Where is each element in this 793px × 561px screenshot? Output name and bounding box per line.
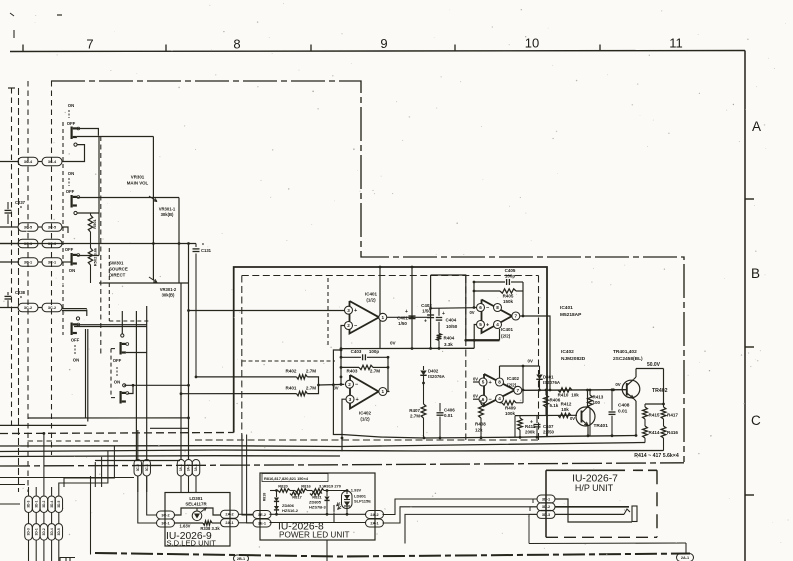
- svg-text:B: B: [751, 266, 760, 281]
- svg-text:3C-5: 3C-5: [48, 225, 56, 229]
- svg-text:5: 5: [479, 322, 482, 327]
- output bus 4: [95, 460, 180, 462]
- SD unit connector 2A-1: [221, 519, 239, 527]
- svg-text:7: 7: [86, 37, 93, 52]
- wire R402 to merge: [307, 377, 318, 385]
- resistor R819: [307, 490, 312, 492]
- left bus dashed vertical 4: [51, 81, 53, 455]
- svg-text:3E-2: 3E-2: [258, 513, 266, 517]
- svg-text:30k(B): 30k(B): [162, 293, 175, 298]
- merged input wire: [319, 383, 345, 386]
- op-amp IC401 2/2: [482, 300, 513, 334]
- capacitor C237: [7, 202, 9, 209]
- svg-text:R402: R402: [286, 369, 297, 374]
- vertical connector 3A-2: [185, 459, 193, 476]
- connector 3D-5 row2: [55, 524, 63, 541]
- resistor R406: [545, 390, 547, 395]
- zener ZD805: [326, 491, 328, 497]
- svg-text:2A-2: 2A-2: [370, 513, 378, 517]
- svg-text:(1/2): (1/2): [366, 298, 376, 303]
- wire y415: [515, 414, 577, 416]
- svg-text:3.)R819 270: 3.)R819 270: [319, 483, 342, 488]
- svg-text:VR301: VR301: [131, 175, 145, 180]
- wire vertical x85.5: [85, 329, 87, 418]
- svg-text:3: 3: [347, 308, 350, 313]
- wire S2 to VR301-1: [77, 197, 179, 199]
- resistor R414: [644, 422, 646, 426]
- svg-text:3C-2: 3C-2: [24, 306, 32, 310]
- svg-text:0V: 0V: [473, 377, 478, 382]
- svg-text:22/50: 22/50: [543, 430, 555, 435]
- connector 3D-5 row1: [55, 496, 63, 513]
- main amplifier unit box: [234, 267, 547, 437]
- output bus 3: [0, 455, 340, 458]
- capacitor C407: [536, 416, 538, 423]
- diode D401: [539, 366, 541, 374]
- svg-text:4: 4: [498, 396, 501, 401]
- svg-text:2A-2: 2A-2: [225, 513, 233, 517]
- wire into connector 3D-1: [35, 487, 37, 496]
- wire to connector 3C-1: [0, 261, 18, 263]
- svg-text:IS2076A: IS2076A: [543, 380, 561, 385]
- HP connector 3D-2: [537, 503, 555, 511]
- svg-text:3C-5: 3C-5: [24, 225, 32, 229]
- svg-text:2SC2458(BL): 2SC2458(BL): [613, 356, 643, 362]
- connector 3C-4 right: [42, 157, 62, 166]
- VR301-1 wiper arrow: [149, 196, 157, 202]
- 50V rail: [636, 368, 664, 370]
- svg-text:2.7M: 2.7M: [306, 369, 316, 374]
- svg-text:3E-1: 3E-1: [258, 521, 266, 525]
- bottom edge stubs: [65, 557, 67, 561]
- wire node 243: [0, 243, 196, 245]
- right border line: [744, 51, 746, 561]
- svg-text:R416: R416: [667, 430, 678, 435]
- wire R411 left: [514, 416, 516, 438]
- S5 link wire: [126, 352, 147, 354]
- svg-text:3D-4: 3D-4: [50, 500, 54, 507]
- svg-text:C237: C237: [15, 200, 26, 205]
- jack contact arrow: [624, 509, 630, 514]
- SD unit connector 3C-1: [157, 519, 175, 527]
- svg-text:7: 7: [517, 388, 520, 393]
- HP unit feed wires: [383, 499, 431, 515]
- resistor R416: [663, 422, 665, 426]
- svg-text:1/50: 1/50: [398, 321, 407, 326]
- svg-text:R816,817,820,821 150×4: R816,817,820,821 150×4: [264, 476, 309, 481]
- HP bottom wire: [529, 542, 686, 545]
- svg-text:C401: C401: [397, 316, 408, 321]
- op-amp IC401 1/2: [350, 301, 380, 334]
- svg-text:R501: R501: [92, 218, 97, 228]
- svg-text:(2/2): (2/2): [501, 334, 511, 339]
- svg-text:HZS16-2: HZS16-2: [282, 508, 299, 513]
- wire between 3C-1: [38, 261, 42, 263]
- svg-text:POWER LED UNIT: POWER LED UNIT: [279, 531, 350, 540]
- vertical connector 3A-1: [177, 459, 185, 476]
- resistor R816: [290, 490, 295, 492]
- svg-text:2.7M: 2.7M: [410, 414, 420, 419]
- svg-text:2A-1: 2A-1: [681, 556, 689, 560]
- wire between 3C-4: [38, 161, 42, 163]
- dashed shield wire: [242, 360, 335, 362]
- svg-text:HZS7B-3: HZS7B-3: [309, 504, 326, 509]
- svg-text:R409: R409: [505, 406, 516, 411]
- power unit bottom wire: [326, 540, 328, 561]
- connector 3D-3 row1: [25, 496, 33, 513]
- input wire lower: [124, 384, 188, 386]
- wire vertical x87.8: [87, 329, 89, 422]
- svg-text:TR401: TR401: [594, 423, 609, 429]
- svg-text:8: 8: [496, 305, 499, 310]
- svg-text:100k: 100k: [505, 411, 516, 416]
- svg-text:3C-2: 3C-2: [48, 306, 56, 310]
- vertical connector 3C-1 mid: [146, 459, 148, 461]
- wire vertical x136.4: [135, 311, 137, 460]
- feedback right vertical: [522, 282, 524, 316]
- svg-text:D402: D402: [428, 369, 439, 374]
- svg-text:1: 1: [382, 389, 385, 394]
- wire to pin6: [431, 307, 474, 310]
- svg-text:+: +: [530, 420, 533, 426]
- link wire 3D-3: [28, 513, 30, 524]
- wire vertical x122: [121, 311, 123, 334]
- emitter node wire: [645, 403, 664, 405]
- power unit connector 3E-2: [253, 511, 271, 519]
- svg-text:R403: R403: [347, 369, 358, 374]
- connector 3C-3 right: [42, 239, 62, 248]
- IC402a output wire: [387, 391, 390, 393]
- paper speckle: [257, 86, 258, 87]
- resistor R502: [90, 244, 92, 249]
- switch S4: [71, 323, 73, 336]
- LED LD801: [342, 491, 353, 509]
- pin2 ground loop: [333, 350, 342, 435]
- wire into connector 3D-5: [58, 487, 60, 496]
- switch S4 arrow: [74, 345, 76, 354]
- pin8 wire up: [499, 366, 501, 378]
- svg-text:+: +: [424, 319, 427, 325]
- pin6 stub: [473, 398, 479, 400]
- connector 3C-2 left: [18, 303, 38, 312]
- svg-text:5.1k: 5.1k: [550, 403, 559, 408]
- SD unit connector 2A-2: [221, 510, 239, 518]
- svg-text:3D-2: 3D-2: [542, 505, 550, 509]
- link wire 3D-5: [58, 513, 60, 524]
- wire to connector 3C-2: [0, 307, 18, 309]
- ruler tick marks: [22, 45, 24, 52]
- LED LD301 symbol: [192, 511, 202, 521]
- svg-text:R412: R412: [561, 402, 572, 407]
- supply drop wire x380: [379, 267, 381, 349]
- signal wire to IC401 pin3: [189, 310, 345, 312]
- wire below 3D-4: [51, 540, 53, 561]
- svg-text:2A-1: 2A-1: [370, 521, 378, 525]
- svg-text:C402: C402: [421, 303, 432, 308]
- power unit connector 2A-1: [366, 519, 384, 527]
- left bus into pills: [0, 477, 134, 479]
- wire between 3C-3: [38, 243, 42, 245]
- feedback verticals: [340, 350, 342, 384]
- svg-text:SEL4117R: SEL4117R: [185, 502, 207, 507]
- capacitor C131: [195, 244, 197, 248]
- wire vertical x99: [98, 136, 100, 256]
- svg-text:+: +: [442, 311, 445, 317]
- diode D402: [423, 366, 425, 370]
- svg-text:C405: C405: [505, 268, 516, 273]
- HP feed wires: [430, 498, 537, 500]
- svg-text:3C-1: 3C-1: [48, 260, 56, 264]
- wire vertical to VR301: [152, 137, 154, 200]
- IC401b output wire: [520, 316, 550, 390]
- svg-text:C131: C131: [201, 248, 212, 253]
- svg-text:ON: ON: [114, 380, 120, 385]
- SD unit connector 3C-2: [157, 511, 175, 519]
- resistor R409: [500, 402, 503, 404]
- wire vertical x146.7: [146, 306, 148, 460]
- svg-text:IS2076A: IS2076A: [428, 374, 445, 379]
- switch S5: [120, 342, 122, 355]
- svg-text:0V: 0V: [390, 341, 397, 346]
- resistor R501: [90, 213, 92, 215]
- svg-text:R410: R410: [558, 393, 569, 398]
- svg-text:C: C: [751, 413, 761, 428]
- svg-text:C238: C238: [15, 290, 26, 295]
- HP unit box: [546, 469, 625, 471]
- resistor R411: [519, 416, 521, 418]
- wire between 3C-2: [38, 307, 42, 309]
- svg-text:ON: ON: [68, 171, 74, 176]
- connector 3C-3 left: [18, 239, 38, 248]
- wire contact S2: [77, 212, 99, 214]
- svg-text:H/P UNIT: H/P UNIT: [575, 483, 614, 493]
- svg-text:ON: ON: [73, 358, 79, 363]
- svg-text:TR402: TR402: [652, 388, 668, 394]
- pin5 stub: [473, 381, 479, 383]
- wire R401 to merge: [307, 385, 318, 394]
- contact below S2: [74, 211, 77, 214]
- connector 3C-1 right: [42, 258, 62, 267]
- resistor R402: [297, 375, 308, 379]
- ground bus left: [0, 433, 234, 434]
- 0V node wire: [500, 365, 540, 367]
- connector 3C-5 right: [42, 223, 62, 232]
- wire S3: [77, 255, 99, 257]
- wire y275: [431, 275, 466, 340]
- svg-text:TR401,402: TR401,402: [613, 349, 637, 355]
- bottom edge connector: [677, 554, 694, 561]
- svg-text:12k: 12k: [475, 428, 483, 433]
- svg-text:3C-1: 3C-1: [145, 464, 149, 471]
- svg-text:0V: 0V: [469, 310, 474, 315]
- svg-text:2.7M: 2.7M: [306, 386, 316, 391]
- svg-text:3D-3: 3D-3: [27, 500, 31, 507]
- connector 3D-4 row2: [48, 524, 56, 541]
- svg-text:0V: 0V: [528, 359, 533, 364]
- svg-text:0V: 0V: [615, 382, 620, 387]
- svg-text:OFF: OFF: [65, 247, 74, 252]
- connector 3C-2 wire heavy: [62, 308, 87, 310]
- svg-text:OFF: OFF: [66, 189, 75, 194]
- svg-text:R401: R401: [286, 386, 297, 391]
- left bus top tee: [8, 87, 15, 89]
- svg-text:IC402: IC402: [561, 349, 574, 355]
- wire to connector 3C-5: [0, 226, 18, 228]
- staircase wires: [64, 446, 114, 487]
- headphone jack: [632, 506, 637, 522]
- svg-text:VR301-2: VR301-2: [160, 287, 177, 292]
- capacitor C406: [439, 403, 441, 412]
- svg-text:SLP115E: SLP115E: [354, 498, 371, 503]
- connector 3D-2 row2: [40, 524, 48, 541]
- switch S6: [120, 391, 122, 404]
- contact S4: [76, 317, 79, 320]
- svg-text:SW301: SW301: [109, 261, 124, 266]
- svg-text:NJM2082D: NJM2082D: [561, 356, 586, 362]
- power unit connector 3E-1: [253, 519, 271, 527]
- svg-text:9: 9: [380, 36, 387, 51]
- svg-text:1.93V: 1.93V: [351, 488, 362, 493]
- link wire 3D-4: [51, 513, 53, 524]
- wire contact to 3C-4: [62, 145, 85, 162]
- svg-text:VR301-1: VR301-1: [159, 207, 176, 212]
- switch S3: [71, 253, 73, 266]
- S.D.LED unit box: [165, 493, 230, 547]
- svg-text:IC402: IC402: [507, 376, 520, 381]
- svg-text:R414: R414: [649, 430, 660, 435]
- svg-text:R406: R406: [550, 398, 561, 403]
- resistor R404: [437, 333, 442, 340]
- svg-text:0V: 0V: [473, 394, 478, 399]
- connector 3C-5 left: [18, 223, 38, 232]
- svg-text:A: A: [752, 119, 761, 134]
- feed vertical from amp 2: [247, 435, 253, 524]
- svg-text:R820: R820: [278, 483, 288, 488]
- resistor R417: [663, 404, 665, 407]
- resistor R821: [310, 492, 322, 496]
- svg-text:3C-4: 3C-4: [24, 160, 33, 164]
- left bus dashed vertical 1: [11, 88, 13, 430]
- svg-text:OFF: OFF: [113, 358, 122, 363]
- LED LD301 bridge wire: [175, 508, 221, 515]
- vertical connector 3C-2 mid: [137, 430, 139, 460]
- svg-text:2A-1: 2A-1: [225, 521, 233, 525]
- VR301-1 potentiometer: [178, 198, 180, 244]
- switch S1 arrow: [68, 110, 70, 118]
- svg-text:C408: C408: [618, 403, 630, 409]
- switch S2 arrow: [68, 178, 70, 186]
- op-amp IC402 2/2: [484, 374, 515, 406]
- resistor R412: [558, 413, 571, 417]
- wire node 283: [99, 282, 188, 284]
- svg-text:150k: 150k: [503, 299, 514, 304]
- connector 3D-1 row2: [32, 524, 40, 541]
- svg-text:100p: 100p: [505, 274, 516, 279]
- output bus 2: [0, 450, 664, 452]
- svg-text:4: 4: [496, 322, 499, 327]
- svg-text:30k(B): 30k(B): [161, 212, 174, 217]
- svg-text:2: 2: [347, 323, 350, 328]
- left edge stub wires: [0, 484, 25, 486]
- wire vertical x181: [180, 283, 182, 460]
- svg-text:3C-2: 3C-2: [136, 464, 140, 471]
- svg-text:C407: C407: [543, 424, 554, 429]
- svg-text:3A-3: 3A-3: [194, 464, 198, 471]
- svg-text:DIRECT: DIRECT: [109, 273, 126, 278]
- capacitor C238: [7, 292, 9, 295]
- svg-text:3C-4: 3C-4: [48, 160, 57, 164]
- connector 3D-4 row1: [48, 496, 56, 513]
- svg-text:10k: 10k: [561, 407, 569, 412]
- connector 3C-2 right: [42, 303, 62, 312]
- PCB boundary dash-dot lower: [95, 553, 690, 557]
- svg-text:3A-2: 3A-2: [187, 464, 191, 471]
- ground rail: [342, 435, 636, 439]
- svg-text:8: 8: [233, 37, 240, 52]
- border ruler line: [10, 51, 745, 52]
- svg-text:10: 10: [525, 36, 539, 51]
- resistor R408: [480, 400, 482, 404]
- svg-text:6: 6: [482, 397, 485, 402]
- capacitor C402: [427, 314, 434, 316]
- HP connector 3D-1: [537, 495, 555, 503]
- wire down to contact: [86, 310, 88, 317]
- svg-text:1: 1: [382, 315, 385, 320]
- svg-text:R407: R407: [409, 408, 420, 413]
- svg-text:OFF: OFF: [71, 338, 80, 343]
- connector 3D-2 row1: [40, 496, 48, 513]
- thick 0V segment: [466, 339, 500, 341]
- feedback vertical x523: [522, 366, 524, 390]
- svg-text:MAIN VOL: MAIN VOL: [127, 181, 149, 186]
- resistor R405: [474, 290, 500, 292]
- svg-text:2B-1: 2B-1: [237, 557, 245, 561]
- jack wiring: [555, 499, 632, 522]
- svg-text:3D-1: 3D-1: [34, 528, 38, 535]
- svg-text:3D-3: 3D-3: [542, 513, 550, 517]
- resistor note box: [262, 474, 328, 482]
- resistor R401: [297, 391, 308, 395]
- transistor TR401: [576, 407, 595, 426]
- dashed vertical x100.8: [100, 136, 102, 354]
- capacitor C401: [409, 315, 416, 317]
- svg-text:C404: C404: [446, 318, 457, 323]
- wire below 3D-1: [35, 540, 37, 561]
- svg-text:LD301: LD301: [189, 496, 203, 501]
- heavy wire S4: [74, 324, 147, 326]
- svg-text:R415: R415: [649, 413, 660, 418]
- svg-text:0V: 0V: [570, 416, 575, 421]
- LD801 arrows: [338, 506, 342, 510]
- wire to connector 3C-4: [0, 161, 18, 163]
- connector 3D-3 row2: [25, 524, 33, 541]
- svg-text:R404: R404: [444, 336, 455, 341]
- supply vertical: [663, 369, 665, 405]
- switch S5 arrow: [116, 367, 118, 376]
- VR301-2 potentiometer: [178, 244, 180, 284]
- svg-text:3C-1: 3C-1: [24, 260, 32, 264]
- svg-text:2.7M: 2.7M: [370, 369, 380, 374]
- svg-text:R502 3.6k: R502 3.6k: [93, 247, 98, 266]
- power unit lower wire: [270, 505, 335, 523]
- wire into connector 3D-4: [51, 487, 53, 496]
- link wires SD to power: [239, 513, 254, 515]
- input wire R402: [196, 376, 297, 378]
- wire to connector 3C-3: [0, 243, 18, 245]
- svg-text:0.01: 0.01: [444, 413, 453, 418]
- border tick B/C: [745, 346, 754, 348]
- border tick C/D: [745, 494, 754, 496]
